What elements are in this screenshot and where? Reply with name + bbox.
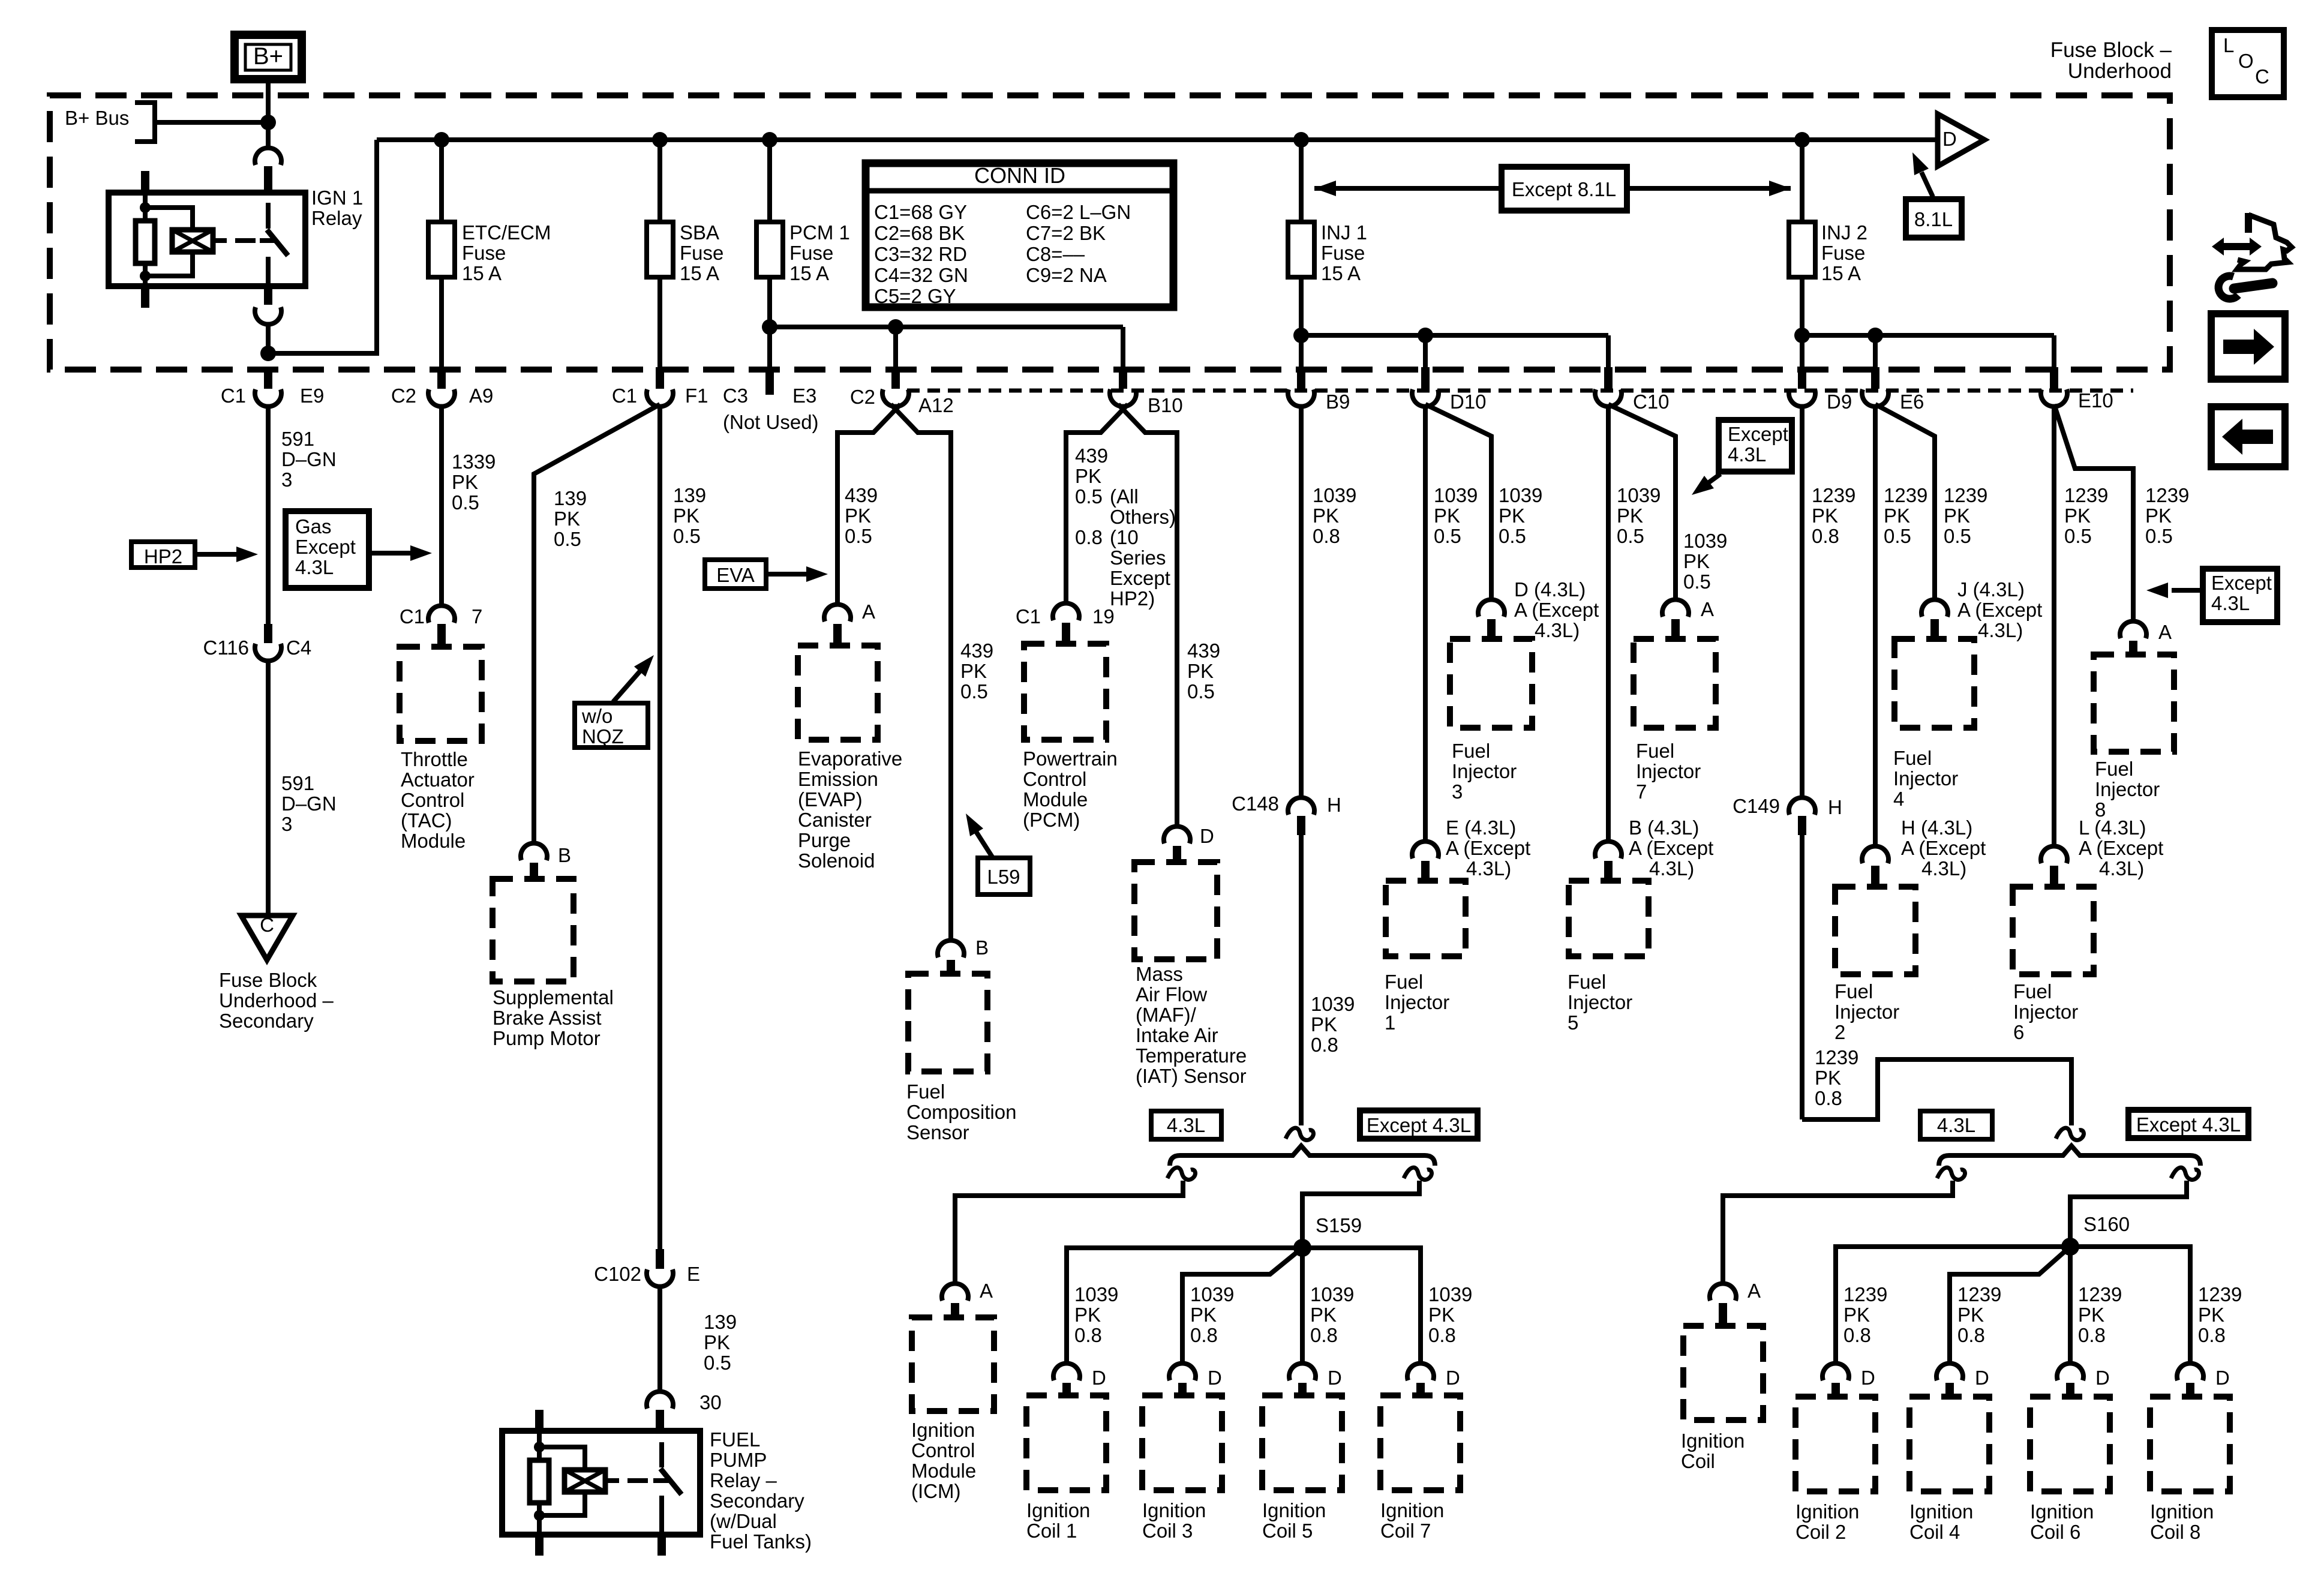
label 139 PK 0.5 relay: [704, 1311, 737, 1374]
pin stub relay coil bottom: [141, 286, 149, 308]
svg-text:Module: Module: [1023, 788, 1088, 810]
svg-text:0.5: 0.5: [2064, 525, 2092, 547]
wire break above 4.3L brace: [1286, 1128, 1313, 1140]
svg-text:Ignition: Ignition: [911, 1419, 975, 1441]
svg-text:0.5: 0.5: [2145, 525, 2173, 547]
svg-text:PK: PK: [554, 508, 580, 530]
pin stub fuel pump relay 30: [656, 1410, 664, 1431]
svg-text:ETC/ECM: ETC/ECM: [462, 221, 551, 244]
icon double arrow: [2212, 238, 2262, 256]
wire fp relay coil: [537, 1431, 542, 1535]
svg-text:PK: PK: [2064, 505, 2091, 527]
svg-text:Coil 4: Coil 4: [1909, 1521, 1960, 1543]
connector fuel injector 1: [1412, 841, 1439, 881]
label Ignition Coil 2: [1795, 1500, 1859, 1543]
label 139 PK 0.5 pump: [554, 487, 587, 550]
fuel injector 4 box: [1894, 639, 1974, 728]
svg-text:L (4.3L): L (4.3L): [2079, 816, 2146, 839]
svg-text:PK: PK: [1187, 660, 1214, 682]
svg-text:Fuse: Fuse: [789, 242, 833, 264]
svg-text:B+ Bus: B+ Bus: [65, 107, 129, 129]
svg-text:Coil 7: Coil 7: [1380, 1520, 1431, 1542]
svg-text:0.8: 0.8: [1815, 1087, 1842, 1109]
svg-text:Injector: Injector: [1568, 991, 1632, 1013]
svg-text:Secondary: Secondary: [710, 1490, 804, 1512]
svg-text:Secondary: Secondary: [219, 1010, 314, 1032]
icon left arrow box: [2211, 407, 2285, 467]
ignition coil 6 box: [2030, 1397, 2110, 1491]
svg-text:7: 7: [472, 605, 482, 628]
label Except 4.3L box right: [2128, 1110, 2248, 1138]
svg-text:1239: 1239: [1884, 484, 1927, 506]
connector EVAP A: [824, 601, 875, 646]
svg-text:S160: S160: [2083, 1213, 2130, 1235]
svg-text:IGN 1: IGN 1: [311, 187, 363, 209]
wire fp relay coil stub: [605, 1478, 619, 1483]
svg-text:E: E: [687, 1263, 700, 1285]
arrow EVA to wire: [766, 566, 828, 582]
svg-text:A (Except: A (Except: [1446, 837, 1530, 859]
node fp relay dot bottom: [534, 1510, 545, 1521]
label Except 4.3L callout right box: [2203, 569, 2277, 622]
svg-text:Injector: Injector: [1636, 760, 1701, 782]
svg-text:HP2): HP2): [1110, 587, 1155, 610]
svg-text:A: A: [980, 1280, 993, 1302]
svg-text:D10: D10: [1450, 391, 1487, 413]
svg-text:A: A: [1747, 1280, 1761, 1302]
svg-text:Fuel: Fuel: [1452, 740, 1490, 762]
wire C148 down: [1299, 835, 1304, 1125]
svg-text:B9: B9: [1326, 391, 1350, 413]
svg-text:(TAC): (TAC): [401, 809, 452, 831]
svg-text:NQZ: NQZ: [582, 725, 624, 748]
svg-text:D: D: [1975, 1367, 1989, 1389]
label fuel injector 3 pins: [1514, 578, 1599, 641]
table CONN ID frame: [866, 163, 1173, 307]
label CONN ID title: [974, 163, 1065, 188]
node dot ETC fuse tap: [434, 132, 449, 148]
svg-text:Coil 5: Coil 5: [1262, 1520, 1313, 1542]
connector fuel injector 8: [2120, 621, 2172, 655]
wire break right brace right end: [2171, 1167, 2199, 1179]
ignition coil 7 box: [1380, 1395, 1460, 1490]
svg-text:D: D: [1861, 1367, 1875, 1389]
connector D9: [1789, 367, 1852, 413]
label 4.3L box left: [1151, 1111, 1221, 1139]
connector C2/A9: [391, 367, 494, 407]
wire to S159: [1302, 1181, 1419, 1239]
svg-text:J (4.3L): J (4.3L): [1957, 578, 2025, 601]
arrow L59 to wire: [966, 813, 993, 858]
svg-text:Relay –: Relay –: [710, 1469, 777, 1491]
svg-text:PK: PK: [1499, 505, 1525, 527]
label Ignition Coil 6: [2030, 1500, 2094, 1543]
label L59 box: [978, 858, 1030, 894]
label 1339 PK 0.5: [452, 451, 496, 514]
svg-text:Supplemental: Supplemental: [493, 986, 614, 1008]
svg-text:A: A: [1701, 598, 1714, 620]
svg-text:Coil: Coil: [1681, 1450, 1715, 1472]
svg-text:E10: E10: [2078, 389, 2113, 412]
label MAF IAT Sensor: [1136, 963, 1247, 1087]
fuel injector 8 box: [2094, 655, 2174, 752]
fuel injector 7 box: [1634, 639, 1716, 728]
switch IGN 1 relay contact: [260, 203, 288, 286]
label CONN ID left column: [874, 201, 968, 307]
svg-text:Ignition: Ignition: [1681, 1430, 1744, 1452]
svg-text:Ignition: Ignition: [1909, 1500, 1973, 1523]
svg-text:A (Except: A (Except: [1514, 599, 1599, 621]
coil fuel pump relay winding: [565, 1470, 605, 1492]
label Supplemental Brake Assist Pump Motor: [493, 986, 614, 1049]
svg-text:PK: PK: [1884, 505, 1910, 527]
svg-text:30: 30: [699, 1391, 722, 1413]
wire S159 to coil 7: [1302, 1248, 1421, 1364]
svg-text:PK: PK: [673, 505, 699, 527]
label EVA box: [705, 560, 766, 589]
svg-text:4.3L: 4.3L: [295, 556, 334, 578]
svg-text:PK: PK: [1313, 505, 1339, 527]
connector ignition coil 2 D: [1822, 1363, 1875, 1397]
svg-text:(IAT) Sensor: (IAT) Sensor: [1136, 1065, 1247, 1087]
svg-text:PK: PK: [2145, 505, 2172, 527]
svg-text:0.8: 0.8: [2198, 1324, 2226, 1346]
svg-text:D (4.3L): D (4.3L): [1514, 578, 1586, 601]
coil IGN 1 relay winding: [172, 230, 213, 252]
svg-text:Fuse Block: Fuse Block: [219, 969, 317, 991]
svg-text:E (4.3L): E (4.3L): [1446, 816, 1516, 839]
svg-text:w/o: w/o: [581, 705, 612, 727]
node off-page triangle C: [241, 914, 293, 960]
label IGN 1 Relay: [311, 187, 363, 229]
svg-text:C4: C4: [286, 637, 311, 659]
svg-text:Coil 3: Coil 3: [1142, 1520, 1193, 1542]
svg-text:Fuel: Fuel: [1893, 747, 1932, 769]
connector E6: [1862, 367, 1924, 413]
svg-text:Others): Others): [1110, 506, 1176, 528]
svg-text:D: D: [1208, 1367, 1222, 1389]
connector C2/A12: [850, 367, 954, 416]
svg-text:Purge: Purge: [798, 829, 851, 851]
svg-text:Fuel: Fuel: [1385, 971, 1423, 993]
connector fuel injector 5: [1595, 841, 1622, 881]
connector fuel pump relay 30: [647, 1391, 722, 1413]
wire ETC drop: [439, 280, 444, 370]
label 1239 PK 0.8 coil4: [1957, 1283, 2001, 1346]
svg-text:1239: 1239: [1944, 484, 1987, 506]
wire break left brace left end: [1167, 1167, 1195, 1179]
pin stub fp relay coil top: [535, 1410, 544, 1431]
svg-text:0.8: 0.8: [1310, 1324, 1338, 1346]
svg-text:H (4.3L): H (4.3L): [1901, 816, 1972, 839]
wire S160 to coil 2: [1836, 1247, 2070, 1364]
svg-text:D–GN: D–GN: [281, 792, 337, 815]
icon wrench: [2218, 276, 2272, 299]
wire 591 C116 down: [266, 661, 271, 914]
wire D10 branch to injector 3: [1425, 404, 1491, 600]
pin stub fp relay coil bottom: [535, 1535, 544, 1556]
label 591 D-GN 3 upper: [281, 428, 337, 491]
connector MAF D: [1164, 825, 1214, 862]
node brace 4.3L left: [1170, 1146, 1435, 1166]
svg-text:4.3L): 4.3L): [2099, 857, 2144, 879]
svg-text:EVA: EVA: [716, 564, 755, 586]
fuel composition sensor box: [908, 974, 987, 1071]
svg-text:0.5: 0.5: [1884, 525, 1911, 547]
svg-text:Injector: Injector: [1385, 991, 1449, 1013]
svg-text:D: D: [2095, 1367, 2110, 1389]
svg-text:Except: Except: [1728, 423, 1788, 445]
evaporative emission canister purge solenoid box: [798, 646, 878, 740]
svg-text:Actuator: Actuator: [401, 769, 475, 791]
wire E6 branch to injector 4: [1875, 404, 1935, 600]
connector fuel comp B: [938, 936, 989, 974]
svg-text:Fuel: Fuel: [2013, 980, 2052, 1002]
svg-text:15 A: 15 A: [680, 262, 719, 284]
svg-text:1039: 1039: [1428, 1283, 1472, 1305]
svg-text:C1: C1: [612, 385, 637, 407]
label 439 PK 0.5 fuel comp: [960, 640, 993, 703]
svg-text:Coil 6: Coil 6: [2030, 1521, 2080, 1543]
svg-text:0.8: 0.8: [2078, 1324, 2106, 1346]
wire relay output feed to bus: [268, 140, 377, 353]
node brace 4.3L right: [1939, 1146, 2200, 1166]
svg-text:C3: C3: [723, 385, 748, 407]
label Ignition Coil 8: [2150, 1500, 2214, 1543]
wire S160 to coil 8: [2070, 1247, 2190, 1364]
svg-text:0.5: 0.5: [1683, 571, 1711, 593]
svg-text:C4=32 GN: C4=32 GN: [874, 264, 968, 286]
svg-text:Intake Air: Intake Air: [1136, 1024, 1218, 1046]
fuel injector 3 box: [1450, 639, 1532, 728]
wire D10 down: [1423, 406, 1428, 842]
svg-text:Relay: Relay: [311, 207, 362, 229]
node relay dot bottom: [140, 271, 151, 281]
label INJ 2 Fuse 15A: [1821, 221, 1867, 284]
label fuel injector 1 pins: [1446, 816, 1530, 879]
label 1239 PK 0.8 coil8: [2198, 1283, 2242, 1346]
svg-text:1239: 1239: [2064, 484, 2108, 506]
svg-text:3: 3: [1452, 781, 1463, 803]
connector C1/E9: [221, 367, 325, 407]
wire B9 drop: [1299, 280, 1304, 370]
connector C102/E: [594, 1249, 700, 1287]
fuse SBA 15A: [647, 140, 673, 280]
label 8.1L box: [1906, 199, 1962, 238]
wire to ICM: [955, 1181, 1183, 1284]
svg-text:0.5: 0.5: [1617, 525, 1644, 547]
svg-text:4.3L: 4.3L: [2211, 592, 2250, 614]
svg-text:15 A: 15 A: [789, 262, 829, 284]
label B+ Bus: [65, 107, 129, 129]
wire E6 down: [1873, 406, 1878, 846]
label Fuel Injector 3: [1452, 740, 1517, 803]
wire PCM1 sub-bus: [770, 325, 1123, 329]
svg-text:E3: E3: [792, 385, 816, 407]
node junction dot B+ bus: [260, 115, 276, 130]
svg-text:1239: 1239: [1812, 484, 1855, 506]
svg-text:B+: B+: [253, 43, 283, 70]
wire E10 drop: [2052, 335, 2056, 370]
svg-text:1239: 1239: [1815, 1046, 1858, 1068]
svg-text:Fuel: Fuel: [1636, 740, 1674, 762]
svg-text:Ignition: Ignition: [1380, 1499, 1444, 1521]
svg-text:Coil 8: Coil 8: [2150, 1521, 2200, 1543]
label Fuel Injector 6: [2013, 980, 2078, 1043]
wire B10 drop: [1121, 327, 1125, 370]
connector pump motor B: [521, 843, 571, 879]
wire B10 X split: [1066, 404, 1177, 827]
svg-text:C102: C102: [594, 1263, 641, 1285]
svg-text:PK: PK: [2198, 1304, 2224, 1326]
svg-text:439: 439: [1075, 445, 1108, 467]
svg-text:1239: 1239: [2198, 1283, 2242, 1305]
svg-text:Emission: Emission: [798, 768, 878, 790]
label fuel injector 2 pins: [1901, 816, 1986, 879]
label Fuse Block - Underhood: [2050, 38, 2172, 83]
svg-text:C: C: [260, 914, 274, 936]
ignition coil 4 box: [1909, 1397, 1989, 1491]
svg-text:INJ 2: INJ 2: [1821, 221, 1867, 244]
svg-text:0.8: 0.8: [1190, 1324, 1218, 1346]
svg-text:Ignition: Ignition: [2030, 1500, 2094, 1523]
svg-text:0.5: 0.5: [452, 491, 479, 514]
svg-text:PK: PK: [1683, 550, 1710, 572]
svg-text:3: 3: [281, 813, 292, 835]
svg-text:1039: 1039: [1311, 993, 1355, 1015]
wire A12 drop: [893, 327, 898, 370]
ignition control module box: [912, 1317, 994, 1411]
svg-text:6: 6: [2013, 1021, 2024, 1043]
svg-text:0.8: 0.8: [1074, 1324, 1102, 1346]
svg-text:PK: PK: [1812, 505, 1838, 527]
resistor IGN 1 relay: [136, 221, 155, 263]
wire relay coil left branch: [143, 193, 148, 286]
fuel injector 1 box: [1386, 881, 1466, 956]
svg-text:(All: (All: [1110, 485, 1139, 508]
svg-text:139: 139: [704, 1311, 737, 1333]
label 4.3L box right: [1920, 1111, 1992, 1139]
fuse INJ 2 15A: [1789, 140, 1815, 280]
svg-text:591: 591: [281, 428, 314, 450]
node junction dot relay output: [260, 346, 276, 361]
svg-text:PK: PK: [452, 471, 478, 493]
label HP2 box: [131, 542, 195, 568]
node S159: [1293, 1214, 1362, 1257]
connector C1/F1: [612, 367, 708, 407]
label 1239 PK 0.8 coil6: [2078, 1283, 2122, 1346]
svg-text:Injector: Injector: [1834, 1001, 1899, 1023]
wire main B+ bus: [377, 137, 1938, 142]
fuse INJ 1 15A: [1288, 140, 1314, 280]
svg-text:A: A: [862, 601, 875, 623]
svg-text:C1=68 GY: C1=68 GY: [874, 201, 967, 223]
svg-text:1039: 1039: [1617, 484, 1661, 506]
label 1039 PK 0.5 inj5 wire: [1617, 484, 1661, 547]
label 1239 PK 0.5 inj2 wire: [1884, 484, 1927, 547]
svg-text:Fuel: Fuel: [1834, 980, 1873, 1002]
svg-text:4.3L): 4.3L): [1649, 857, 1694, 879]
svg-text:E6: E6: [1900, 391, 1924, 413]
svg-text:0.5: 0.5: [554, 528, 581, 550]
svg-text:Except 8.1L: Except 8.1L: [1512, 178, 1616, 200]
svg-text:439: 439: [1187, 640, 1220, 662]
svg-text:Injector: Injector: [2013, 1001, 2078, 1023]
svg-text:(Not Used): (Not Used): [723, 411, 819, 433]
fuse ETC/ECM 15A: [428, 140, 455, 280]
svg-text:1239: 1239: [2078, 1283, 2122, 1305]
svg-text:C6=2 L–GN: C6=2 L–GN: [1026, 201, 1131, 223]
icon service vehicle outline: [2237, 213, 2292, 269]
connector ignition coil 1 D: [1053, 1363, 1106, 1395]
svg-text:0.5: 0.5: [1187, 680, 1215, 703]
wire S160 to coil 6: [2068, 1247, 2073, 1364]
wire F1 to pump motor branch: [534, 404, 660, 843]
node dot INJ2 fuse tap: [1794, 132, 1810, 148]
svg-text:C1: C1: [221, 385, 246, 407]
svg-text:F1: F1: [685, 385, 708, 407]
label Fuel Injector 8: [2095, 758, 2160, 821]
label INJ 1 Fuse 15A: [1321, 221, 1367, 284]
ignition coil 8 box: [2150, 1397, 2230, 1491]
svg-text:Ignition: Ignition: [1262, 1499, 1326, 1521]
svg-text:0.5: 0.5: [1434, 525, 1461, 547]
svg-text:1039: 1039: [1310, 1283, 1354, 1305]
svg-text:1: 1: [1385, 1011, 1395, 1034]
svg-text:Except: Except: [2211, 572, 2272, 594]
wire C10 branch to injector 7: [1608, 404, 1676, 600]
label 1039 PK 0.8 coil1: [1074, 1283, 1118, 1346]
svg-text:O: O: [2238, 50, 2254, 72]
label 1039 PK 0.8 coil7: [1428, 1283, 1472, 1346]
svg-text:Fuel: Fuel: [1568, 971, 1606, 993]
svg-text:4.3L): 4.3L): [1978, 619, 2023, 641]
label Fuel Injector 7: [1636, 740, 1701, 803]
switch fuel pump relay contact: [653, 1442, 681, 1535]
label 439 PK PCM multi: [1075, 445, 1176, 610]
label Fuel Injector 1: [1385, 971, 1449, 1034]
svg-text:A: A: [2158, 621, 2172, 643]
svg-text:0.5: 0.5: [704, 1352, 731, 1374]
svg-text:HP2: HP2: [144, 545, 182, 568]
svg-text:PK: PK: [1815, 1067, 1841, 1089]
connector PCM C1/19: [1016, 603, 1115, 644]
wire S159 to coil 1: [1067, 1248, 1302, 1364]
label SBA Fuse 15A: [680, 221, 723, 284]
wire fp relay coil branch: [539, 1447, 585, 1515]
label Throttle Actuator Control (TAC) Module: [401, 748, 475, 852]
svg-text:Coil 2: Coil 2: [1795, 1521, 1846, 1543]
node dot PCM1/E3: [762, 319, 777, 335]
svg-text:Fuse Block –: Fuse Block –: [2050, 38, 2172, 62]
wire relay coil stub: [213, 238, 227, 243]
svg-text:E9: E9: [300, 385, 324, 407]
wire A12 X split: [837, 404, 951, 941]
connector ignition coil 7 D: [1407, 1363, 1460, 1395]
svg-text:Powertrain: Powertrain: [1023, 748, 1118, 770]
svg-text:Evaporative: Evaporative: [798, 748, 902, 770]
svg-text:D: D: [1328, 1367, 1342, 1389]
relay FUEL PUMP box: [502, 1431, 700, 1535]
svg-text:PK: PK: [960, 660, 987, 682]
svg-text:Except 4.3L: Except 4.3L: [2136, 1113, 2241, 1136]
svg-text:4.3L: 4.3L: [1167, 1114, 1205, 1136]
svg-text:15 A: 15 A: [1821, 262, 1861, 284]
svg-text:PK: PK: [1075, 465, 1101, 487]
svg-text:0.5: 0.5: [845, 525, 872, 547]
label Gas Except 4.3L box: [286, 511, 369, 588]
svg-text:Except 4.3L: Except 4.3L: [1367, 1114, 1471, 1136]
